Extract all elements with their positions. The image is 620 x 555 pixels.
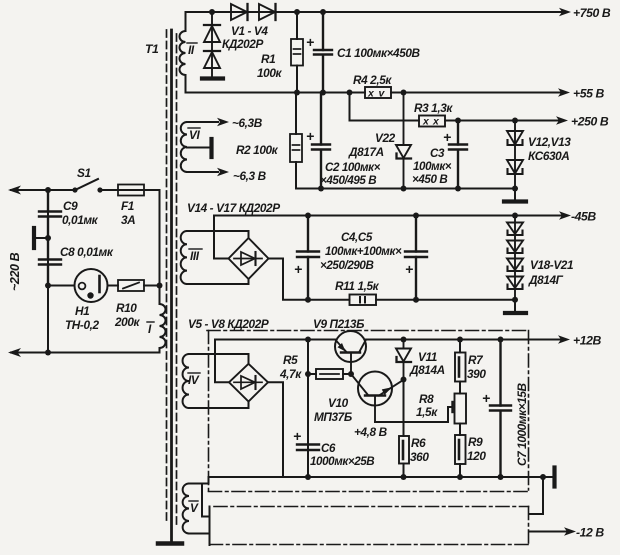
- svg-text:100к: 100к: [257, 66, 282, 80]
- node: junction C6 bottom: [305, 474, 311, 480]
- capacitor C2 (polarized): [312, 93, 330, 189]
- wire: winding V top branch into cable: [202, 484, 210, 517]
- ground (chassis bar) at input filter: [34, 228, 48, 248]
- label plus C4: [294, 261, 302, 277]
- svg-text:ТН-0,2: ТН-0,2: [65, 318, 99, 332]
- svg-text:С7 1000мк×15В: С7 1000мк×15В: [515, 382, 529, 466]
- svg-text:+: +: [405, 261, 413, 277]
- svg-text:×250/290В: ×250/290В: [320, 259, 373, 272]
- label C8 0,01mk: [60, 245, 114, 259]
- svg-text:R11 1,5к: R11 1,5к: [335, 279, 380, 293]
- wire: +250V line: [445, 120, 564, 122]
- capacitor C6 (polarized): [297, 445, 319, 451]
- svg-text:×450/495 В: ×450/495 В: [320, 174, 376, 187]
- label H1 TN-0,2: [65, 304, 99, 332]
- resistor R7: [455, 340, 466, 394]
- resistor R1: [291, 12, 303, 93]
- node: junction R5-C6 branch top: [305, 337, 311, 343]
- svg-text:С6: С6: [321, 442, 336, 455]
- label R6 360: [410, 436, 429, 464]
- node: junction C3 bottom: [455, 186, 461, 192]
- wire: +12V rail right of V9: [366, 339, 567, 341]
- svg-text:III: III: [190, 249, 200, 263]
- svg-text:+12В: +12В: [573, 334, 601, 348]
- svg-text:IV: IV: [188, 373, 200, 387]
- label R1 100k: [257, 52, 282, 80]
- svg-text:-45В: -45В: [571, 210, 596, 224]
- node: junction H1 tap: [45, 283, 51, 289]
- label R3 1,3k: [414, 101, 453, 115]
- label V22 D817A: [348, 131, 396, 159]
- wire: mains input bottom arrow: [8, 348, 21, 357]
- svg-text:V9 П213Б: V9 П213Б: [313, 317, 364, 331]
- svg-text:3A: 3A: [121, 213, 135, 227]
- wire: fuse to primary winding vertical: [144, 190, 160, 304]
- bridge rectifier V14-V17 (diamond): [229, 238, 269, 279]
- ground (chassis bar) at core bottom: [158, 541, 182, 546]
- svg-text:R8: R8: [419, 392, 434, 406]
- label C6 1000mk x 25V: [310, 442, 374, 468]
- resistor R4 (selected, in +55V rail): [365, 87, 391, 100]
- svg-text:V14 - V17 КД202Р: V14 - V17 КД202Р: [187, 201, 280, 215]
- svg-text:С9: С9: [63, 199, 78, 213]
- svg-text:R7: R7: [468, 353, 484, 367]
- svg-text:120: 120: [467, 449, 486, 463]
- ground (chassis bar) below V18-V21: [505, 300, 526, 313]
- svg-text:~6,3В: ~6,3В: [232, 116, 263, 130]
- wire: -45V rail: [214, 215, 566, 217]
- node: junction R1 top: [294, 9, 300, 15]
- svg-text:+: +: [482, 390, 490, 406]
- svg-text:Д814Г: Д814Г: [528, 273, 564, 287]
- node: junction C4 bottom: [305, 297, 311, 303]
- capacitor C4: [297, 216, 319, 300]
- svg-text:+: +: [443, 129, 451, 145]
- label ~6,3V lower: [233, 169, 267, 183]
- zener diode V11 (D814A): [396, 340, 411, 380]
- resistor R10: [118, 280, 160, 291]
- svg-text:КД202Р: КД202Р: [222, 37, 263, 51]
- svg-text:100мк+100мк×: 100мк+100мк×: [325, 245, 402, 258]
- svg-text:R10: R10: [116, 301, 137, 315]
- svg-text:Д817А: Д817А: [348, 145, 384, 159]
- node: junction R7 top: [457, 337, 463, 343]
- svg-text:1000мк×25В: 1000мк×25В: [310, 455, 374, 468]
- wire: V10 base to R8 wiper: [375, 407, 452, 422]
- svg-text:+: +: [306, 34, 314, 50]
- wire: left input rail vertical: [47, 190, 49, 353]
- node: junction R4 right: [401, 90, 407, 96]
- svg-text:F1: F1: [121, 199, 134, 213]
- wire: +12V rail left of V9: [215, 339, 336, 341]
- wire: winding V bottom terminal: [189, 533, 210, 535]
- svg-text:360: 360: [410, 450, 429, 464]
- svg-text:С1 100мк×450В: С1 100мк×450В: [337, 46, 421, 60]
- wire: winding IV bottom to bridge bottom corner: [189, 402, 249, 409]
- resistor R9: [455, 435, 466, 477]
- svg-text:КС630А: КС630А: [528, 149, 569, 163]
- label plus C2: [306, 128, 314, 144]
- wire: +750V top rail: [186, 11, 568, 13]
- transformer winding I (primary): [11, 304, 166, 353]
- wire: ground rail right of R11: [376, 299, 515, 301]
- svg-text:I: I: [148, 322, 152, 336]
- node: junction bottom-left rail: [45, 350, 51, 356]
- svg-text:T1: T1: [145, 42, 159, 56]
- label C3 100mk x450V: [412, 147, 452, 186]
- net label +12V arrow: [558, 334, 601, 348]
- ground (chassis bar) under doubler diodes: [202, 76, 223, 80]
- zener diode V22 (D817A) on +55V: [396, 93, 411, 189]
- switch S1: [73, 179, 118, 192]
- node: junction R1 bottom: [294, 90, 300, 96]
- node: junction C9/C8 ground tap: [45, 235, 51, 241]
- label R4 2,5k: [353, 73, 392, 87]
- label ~220V rotated: [8, 252, 22, 291]
- transformer T1 screen (solid line): [170, 30, 173, 541]
- node: junction C2 bottom: [318, 186, 324, 192]
- net label -45V arrow: [559, 210, 596, 224]
- node: junction R9 bottom: [457, 474, 463, 480]
- node: junction C4 top: [305, 213, 311, 219]
- node: junction top-left rail: [45, 187, 51, 193]
- svg-text:R1: R1: [261, 52, 275, 66]
- wire: common rail jog to cable: [530, 477, 544, 514]
- node: junction V9 base / R5 / V10 collector: [348, 371, 354, 377]
- zener V12: [507, 121, 523, 189]
- svg-text:+750 В: +750 В: [573, 6, 611, 20]
- label R10 200k: [114, 301, 140, 329]
- label V5-V8 KD202R: [188, 317, 269, 331]
- ground (chassis bar) below V12/V13: [504, 189, 526, 202]
- node: junction C5 top: [413, 213, 419, 219]
- label +4,8V: [354, 425, 388, 439]
- wire: winding V top terminal to common rail: [189, 477, 209, 484]
- svg-text:С2 100мк×: С2 100мк×: [325, 161, 381, 174]
- svg-text:Н1: Н1: [75, 304, 89, 318]
- label C1 100mk x 450V: [337, 46, 421, 60]
- label R11 1,5k: [335, 279, 380, 293]
- label plus C1: [306, 34, 314, 50]
- svg-text:+: +: [306, 128, 314, 144]
- fuse F1: [118, 185, 144, 196]
- label F1 3A: [121, 199, 135, 227]
- svg-text:-12 В: -12 В: [576, 526, 604, 540]
- label R5 4,7k: [279, 353, 302, 381]
- wire: bridge minus corner up to -45V rail: [214, 216, 229, 259]
- svg-text:R3 1,3к: R3 1,3к: [414, 101, 453, 115]
- node: junction C7 bottom: [498, 474, 504, 480]
- node: junction V11 top: [401, 337, 407, 343]
- label V1-V4 KD202R: [222, 24, 268, 51]
- label plus C3: [443, 129, 451, 145]
- transformer winding III: [181, 231, 187, 284]
- bridge rectifier V5-V8 (diamond): [229, 364, 268, 402]
- svg-text:4,7к: 4,7к: [279, 367, 302, 381]
- svg-text:С8 0,01мк: С8 0,01мк: [60, 245, 114, 259]
- node: junction C3 top: [455, 118, 461, 124]
- label C9 0,01mk: [62, 199, 99, 227]
- label R9 120: [467, 435, 486, 463]
- wire: winding V cable-side vertical: [209, 507, 211, 546]
- svg-text:+4,8 В: +4,8 В: [354, 425, 388, 439]
- svg-text:+55 В: +55 В: [573, 87, 604, 101]
- node: junction C5 bottom: [413, 297, 419, 303]
- label R7 390: [467, 353, 486, 381]
- node: junction R4 left: [347, 90, 353, 96]
- wire: V11 node down to R6: [403, 380, 405, 437]
- capacitor C7 (polarized): [490, 340, 511, 478]
- resistor R6: [399, 436, 409, 477]
- label winding II: [187, 43, 197, 57]
- transformer winding VI: [181, 122, 187, 172]
- node: junction R5 left / C6 branch: [305, 371, 311, 377]
- svg-text:Д814А: Д814А: [409, 363, 445, 377]
- svg-text:R2 100к: R2 100к: [236, 143, 279, 157]
- node: junction V18 chain top: [512, 213, 518, 219]
- svg-text:+: +: [293, 428, 301, 444]
- svg-text:S1: S1: [77, 166, 91, 180]
- net label +250V arrow: [556, 115, 609, 129]
- svg-text:V5 - V8 КД202Р: V5 - V8 КД202Р: [188, 317, 269, 331]
- label V11 D814A: [409, 350, 445, 377]
- label ~6,3V upper: [232, 116, 263, 130]
- transformer winding V: [183, 484, 189, 534]
- wire: winding III top to bridge top corner: [187, 231, 249, 238]
- label T1: [145, 42, 159, 56]
- resistor R5: [308, 369, 348, 379]
- label R2 100k: [236, 143, 279, 157]
- label plus C5: [405, 261, 413, 277]
- label winding III: [189, 249, 202, 263]
- capacitor C9: [39, 190, 61, 238]
- wire: ~6.3V upper output with arrow: [187, 118, 229, 126]
- node: junction V11/V10 emitter: [401, 377, 407, 383]
- label C7 1000mk x 15V rotated: [515, 382, 529, 466]
- wire: winding VI center tap to chassis: [187, 139, 212, 157]
- svg-text:1,5к: 1,5к: [416, 405, 438, 419]
- wire: bridge plus corner up to +12V input rail: [215, 340, 229, 383]
- ground (chassis bar) at right end of common rail: [552, 468, 556, 487]
- svg-text:V10: V10: [328, 396, 349, 410]
- svg-text:С4,С5: С4,С5: [341, 231, 373, 244]
- label C4,C5 100mk+100mk x250/290V: [320, 231, 402, 272]
- svg-text:0,01мк: 0,01мк: [62, 213, 99, 227]
- label R8 1,5k: [416, 392, 438, 419]
- label S1: [77, 166, 91, 180]
- svg-text:V: V: [190, 501, 199, 515]
- label plus C6: [293, 428, 301, 444]
- transformer winding IV: [183, 354, 189, 408]
- wire: ground rail left of R11: [308, 299, 350, 301]
- wire: R5/C6 branch vertical: [307, 340, 309, 478]
- wire: ~6.3V lower output with arrow: [187, 168, 229, 176]
- svg-text:VI: VI: [189, 128, 200, 142]
- svg-text:V12,V13: V12,V13: [528, 135, 571, 149]
- diode V4 (series in top rail): [259, 4, 276, 20]
- node: junction V13 bottom: [512, 186, 518, 192]
- wire: winding III bottom to bridge bottom corner: [187, 280, 249, 285]
- zener V13: [507, 160, 523, 174]
- wire: mains input top lead with left arrow: [8, 186, 74, 195]
- wire: R4 bypass to R3 branch: [350, 93, 420, 121]
- wire: +55V section ground rail: [296, 188, 515, 190]
- node: junction V12 top: [512, 118, 518, 124]
- svg-text:+250 В: +250 В: [571, 115, 609, 129]
- node: junction -12V return tap: [540, 474, 546, 480]
- svg-text:R5: R5: [283, 353, 298, 367]
- transformer T1 core dashed lines: [167, 30, 177, 524]
- resistor R3 (selected): [419, 116, 445, 128]
- label V18-V21 D814G: [528, 258, 573, 287]
- cable run (dash-dot) middle: [214, 506, 529, 508]
- capacitor C3 (polarized): [449, 121, 467, 189]
- svg-text:~220 В: ~220 В: [8, 252, 22, 291]
- node: junction C7 top: [498, 337, 504, 343]
- svg-text:+: +: [294, 261, 302, 277]
- svg-text:II: II: [188, 43, 195, 57]
- svg-text:V18-V21: V18-V21: [530, 258, 573, 272]
- svg-text:R6: R6: [411, 436, 426, 450]
- svg-text:390: 390: [467, 367, 486, 381]
- svg-text:200к: 200к: [114, 315, 140, 329]
- svg-text:МП37Б: МП37Б: [314, 410, 352, 424]
- node: junction V21 bottom: [512, 297, 518, 303]
- resistor R2: [290, 93, 302, 189]
- cable run (dash-dot) right vertical: [528, 507, 530, 545]
- node: junction R6 bottom: [401, 474, 407, 480]
- transistor V10 (MP37B, NPN): [351, 372, 404, 423]
- resistor R11 (2W): [350, 295, 377, 306]
- transformer winding II: [180, 12, 186, 93]
- label winding I: [147, 322, 154, 336]
- label winding IV: [188, 373, 200, 387]
- diode V3 (series in top rail): [231, 4, 248, 20]
- node: junction C1 top: [320, 9, 326, 15]
- svg-text:R9: R9: [468, 435, 483, 449]
- label V9 P213B: [313, 317, 364, 331]
- label plus C7: [482, 390, 490, 406]
- capacitor C5: [405, 216, 427, 300]
- label winding V: [189, 501, 199, 515]
- transistor V9 (P213B, PNP pass): [335, 331, 366, 374]
- svg-text:V22: V22: [375, 131, 396, 145]
- node: junction C1/C2: [320, 90, 326, 96]
- label V10 MP37B: [314, 396, 352, 424]
- enclosure dash-dot box (regulator unit): [207, 331, 529, 492]
- wire: +55V rail: [186, 92, 567, 94]
- potentiometer R8: [453, 394, 467, 436]
- diode V2 (vertical, lower): [204, 51, 220, 68]
- svg-text:R4 2,5к: R4 2,5к: [353, 73, 392, 87]
- svg-text:V1 - V4: V1 - V4: [231, 24, 268, 38]
- diode V1 (vertical, upper): [204, 12, 220, 77]
- label winding VI: [188, 128, 200, 142]
- net label +750V arrow: [559, 6, 611, 20]
- net label -12V: [576, 526, 604, 540]
- svg-text:~6,3 В: ~6,3 В: [233, 169, 267, 183]
- wire: regulator common (ground) rail: [209, 476, 553, 478]
- label V12,V13 KS630A: [528, 135, 571, 163]
- wire: bridge plus corner to ground rail: [269, 259, 309, 300]
- neon lamp H1: [48, 269, 118, 302]
- node: junction V22 bottom: [401, 186, 407, 192]
- cable run (dash-dot) bottom: [210, 544, 529, 546]
- capacitor C1 (polarized): [314, 12, 332, 93]
- node: junction primary top: [157, 283, 163, 289]
- svg-text:100мк×: 100мк×: [413, 160, 452, 173]
- net label +55V arrow: [558, 87, 604, 101]
- svg-text:×450 В: ×450 В: [412, 173, 447, 186]
- label V14-V17 KD202R: [187, 201, 280, 215]
- capacitor C8: [39, 238, 61, 286]
- zener chain V18-V21 (D814G): [507, 216, 523, 300]
- node: junction doubler diodes: [209, 9, 215, 15]
- wire: bridge minus corner down to common rail: [268, 382, 283, 477]
- svg-text:С3: С3: [430, 147, 445, 160]
- label C2 100mk x450/495V: [320, 161, 381, 187]
- wire: -12V output line with arrow: [530, 527, 577, 535]
- wire: winding IV top to bridge top corner: [189, 354, 249, 364]
- svg-text:V11: V11: [418, 350, 437, 364]
